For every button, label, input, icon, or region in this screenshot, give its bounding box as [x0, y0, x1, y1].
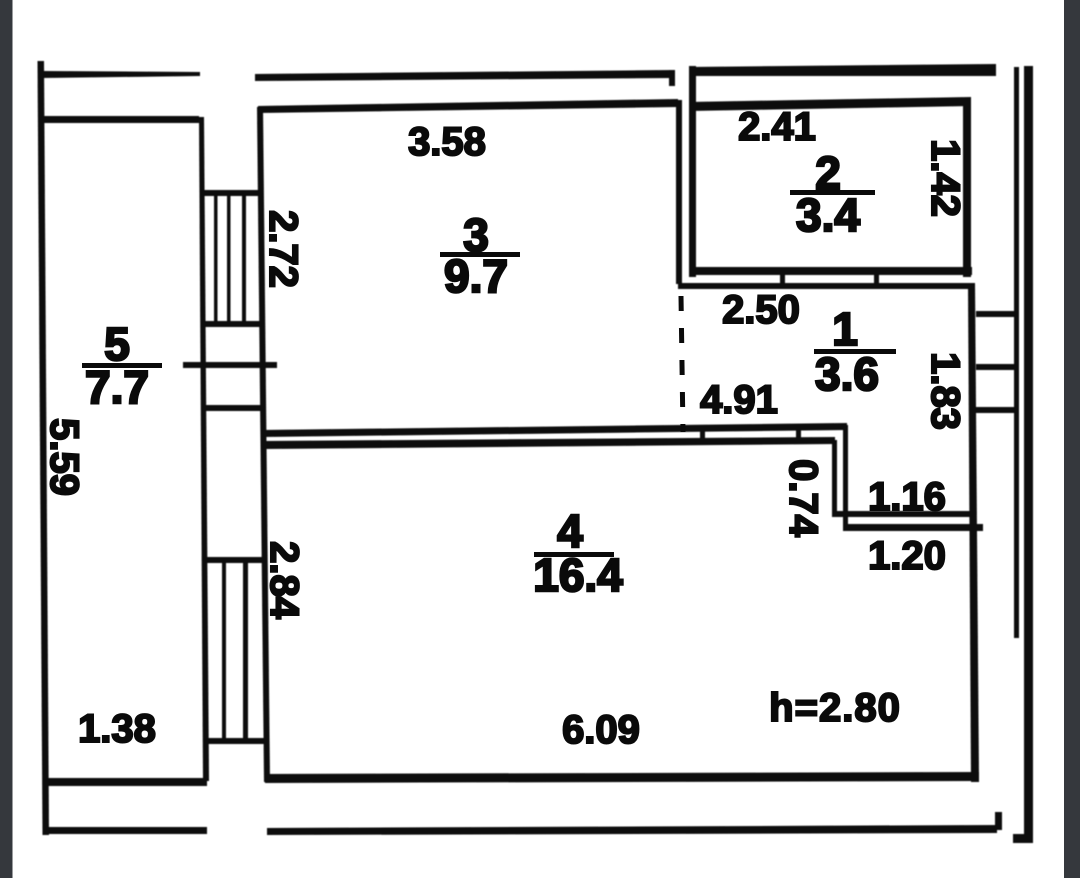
- svg-text:1.83: 1.83: [923, 352, 967, 430]
- top wall segment 2 end tick: [669, 70, 675, 86]
- room 2 door divider 1: [780, 271, 785, 288]
- left border strip: [0, 0, 13, 878]
- room 5 top wall: [42, 116, 199, 123]
- dashed line between room 3 and hall: [681, 296, 683, 432]
- room 4 top wall upper line: [262, 423, 847, 437]
- window W1 top line: [201, 190, 262, 196]
- window W2 bottom line: [207, 738, 269, 744]
- right outer wall thick line: [1024, 66, 1033, 842]
- room 5 bottom wall: [44, 778, 207, 786]
- svg-text:1.16: 1.16: [868, 475, 946, 519]
- room 2 left wall: [689, 100, 696, 277]
- room 1 fraction bar: [814, 349, 896, 354]
- notch inner vertical: [832, 440, 837, 517]
- window W2 mullion 2: [243, 563, 248, 738]
- svg-text:2.50: 2.50: [722, 288, 800, 332]
- room 4 top wall divider 2: [796, 427, 801, 442]
- room 3 right wall: [676, 100, 682, 284]
- svg-text:1.42: 1.42: [923, 139, 967, 217]
- svg-text:h=2.80: h=2.80: [769, 686, 901, 730]
- window W1 mullion 3: [242, 196, 246, 322]
- svg-text:5.59: 5.59: [42, 418, 86, 496]
- hall top line below room 2: [678, 283, 971, 289]
- top wall connector at room 2 left: [689, 66, 696, 106]
- svg-text:1.38: 1.38: [78, 707, 156, 751]
- room 5 right wall (column left line): [199, 117, 209, 781]
- svg-text:9.7: 9.7: [444, 250, 508, 302]
- room 3 top wall: [258, 99, 678, 113]
- svg-text:3.58: 3.58: [408, 120, 486, 164]
- svg-text:3.4: 3.4: [796, 189, 860, 241]
- right border strip: [1064, 0, 1080, 878]
- svg-text:2.41: 2.41: [738, 105, 816, 149]
- niche divider 1: [976, 311, 1018, 317]
- window W1 mullion 2: [227, 196, 231, 322]
- svg-text:2.84: 2.84: [262, 541, 306, 620]
- column crossbar: [204, 405, 264, 411]
- bottom outer wall segment 2: [267, 825, 997, 835]
- window W2 top line: [205, 557, 267, 563]
- svg-text:6.09: 6.09: [562, 708, 640, 752]
- svg-text:2.72: 2.72: [261, 210, 305, 288]
- notch outer vertical: [843, 425, 848, 531]
- hall / room 4 right wall: [968, 283, 979, 782]
- left outer wall: [38, 61, 50, 835]
- svg-text:16.4: 16.4: [533, 549, 623, 601]
- room 4 fraction bar: [534, 552, 614, 557]
- top outer wall segment 1: [42, 71, 200, 78]
- room 2 top wall: [689, 97, 971, 111]
- room 4 top wall divider 1: [700, 428, 705, 443]
- window W1 mullion 1: [214, 196, 218, 322]
- top outer wall segment 2: [255, 70, 675, 81]
- room 4 bottom wall: [265, 772, 979, 783]
- right outer wall bottom foot: [1013, 834, 1033, 843]
- room 4 top wall lower line: [264, 437, 835, 449]
- svg-text:0.74: 0.74: [781, 459, 825, 538]
- dimension tick at room 5 label level: [183, 362, 277, 368]
- notch upper horizontal: [834, 511, 974, 517]
- room 2 fraction bar: [790, 190, 875, 195]
- right outer wall thin line: [1014, 67, 1019, 638]
- svg-text:3.6: 3.6: [815, 348, 879, 400]
- svg-text:7.7: 7.7: [85, 361, 149, 413]
- room 2 door divider 2: [874, 271, 879, 288]
- bottom outer wall segment 1: [45, 827, 207, 834]
- notch lower horizontal: [847, 524, 983, 531]
- window W2 mullion 1: [222, 563, 226, 738]
- niche divider 3: [976, 407, 1016, 413]
- bottom wall right end stub: [995, 812, 1002, 830]
- room 2 right wall: [963, 100, 971, 277]
- room 3 fraction bar: [440, 252, 520, 257]
- room 5 fraction bar: [82, 363, 162, 368]
- room 2 bottom wall: [692, 267, 972, 275]
- window W1 bottom line: [202, 321, 264, 327]
- niche divider 2: [976, 364, 1018, 370]
- svg-text:4.91: 4.91: [700, 378, 778, 422]
- column right line (rooms 3/4 left wall): [257, 107, 270, 782]
- svg-text:1.20: 1.20: [868, 534, 946, 578]
- top outer wall segment 3: [689, 64, 996, 76]
